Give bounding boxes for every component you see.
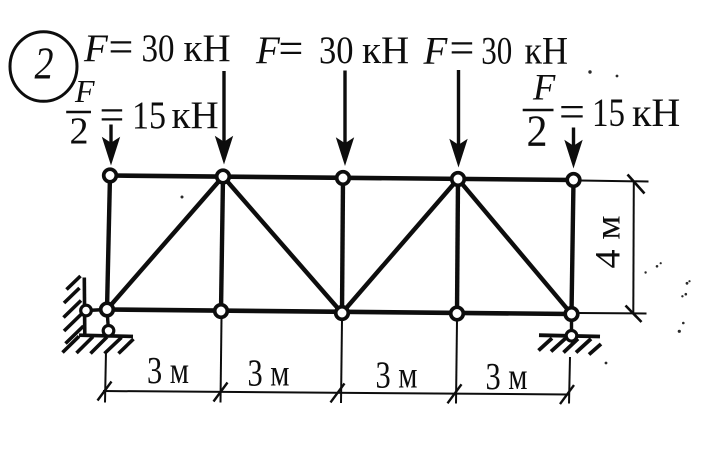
- circled figure number 2: [10, 32, 77, 102]
- svg-text:=: =: [279, 24, 304, 73]
- svg-text:3 м: 3 м: [147, 350, 189, 392]
- right support link: [570, 314, 573, 336]
- node T4: [452, 173, 465, 186]
- svg-text:=: =: [100, 91, 125, 140]
- svg-text:3 м: 3 м: [486, 356, 528, 398]
- vertical member V1: [107, 176, 110, 310]
- svg-text:15: 15: [132, 94, 166, 137]
- svg-text:=: =: [559, 86, 585, 137]
- node B4: [451, 307, 464, 320]
- 4m vertical dimension line: [632, 181, 635, 313]
- svg-text:=: =: [450, 24, 475, 73]
- bottom chord B1-B5: [107, 310, 572, 315]
- force arrow F1: [215, 71, 233, 165]
- left support floor hatching: [63, 336, 134, 353]
- node B2: [215, 305, 228, 318]
- svg-text:=: =: [109, 23, 134, 72]
- vertical member V2: [221, 177, 223, 312]
- scan noise specks: [181, 70, 691, 364]
- 4m bottom tick: [626, 306, 642, 323]
- force arrow F/2 right: [564, 128, 582, 169]
- force arrow F3: [449, 70, 467, 168]
- top chord T1-T5: [110, 176, 574, 181]
- left support wall hatching: [64, 276, 84, 344]
- diagonal member D3: [342, 179, 458, 313]
- left support wall pin: [81, 305, 92, 316]
- left support link to floor: [107, 310, 109, 331]
- force arrow F/2 left: [102, 125, 120, 166]
- dimension tick 2: [214, 383, 228, 402]
- svg-text:3 м: 3 м: [376, 355, 418, 397]
- node T5: [567, 174, 580, 187]
- label F/2=15kN right: fraction bar: [523, 109, 554, 112]
- node B3: [336, 307, 349, 320]
- svg-text:F: F: [74, 73, 95, 109]
- vertical member V3: [342, 178, 343, 313]
- 4m top extension line: [580, 181, 649, 182]
- diagonal member D1: [107, 177, 223, 310]
- vertical member V5: [572, 180, 574, 314]
- right support roller pin: [566, 331, 577, 342]
- 4m bottom extension line: [578, 312, 647, 315]
- dimension tick 5: [560, 385, 574, 404]
- horizontal dimension line: [103, 391, 569, 395]
- extension line below B2: [221, 318, 222, 403]
- left support wall line: [83, 278, 87, 338]
- svg-text:кН: кН: [172, 94, 219, 137]
- svg-text:15: 15: [592, 90, 625, 135]
- dimension tick 4: [448, 384, 462, 403]
- node T1: [104, 169, 117, 182]
- extension line below B3: [341, 320, 342, 403]
- svg-text:F30кН: F30кН: [83, 27, 231, 70]
- node T3: [337, 172, 350, 185]
- node T2: [217, 170, 230, 183]
- left support floor line: [79, 335, 133, 336]
- svg-text:4 м: 4 м: [588, 216, 628, 269]
- svg-text:3 м: 3 м: [248, 353, 290, 395]
- right support floor hatching: [539, 338, 602, 354]
- node B5: [565, 308, 578, 321]
- vertical member V4: [457, 179, 458, 314]
- svg-text:2: 2: [35, 37, 54, 88]
- svg-text:2: 2: [527, 107, 548, 156]
- extension line below B1: [105, 351, 106, 403]
- extension line below B4: [456, 321, 457, 404]
- dimension tick 1: [98, 382, 112, 401]
- diagonal member D2: [223, 177, 342, 314]
- label F/2=15kN left: fraction bar: [66, 111, 91, 113]
- 4m top tick: [628, 175, 645, 194]
- svg-text:F: F: [532, 67, 556, 108]
- left support link to wall: [86, 310, 107, 311]
- svg-text:2: 2: [70, 111, 89, 153]
- svg-text:кН: кН: [632, 90, 680, 135]
- force arrow F2: [336, 71, 354, 167]
- diagonal member D4: [458, 179, 572, 314]
- extension line below B5: [569, 357, 570, 404]
- left support floor pin: [103, 326, 114, 337]
- right support floor line: [539, 335, 600, 336]
- dimension tick 3: [331, 383, 345, 402]
- node B1: [101, 303, 114, 316]
